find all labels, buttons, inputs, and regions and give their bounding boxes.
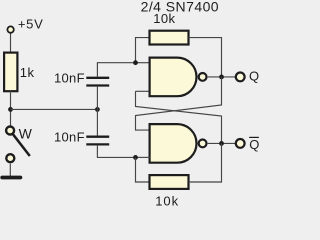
wire: U1a output to terminal Q <box>208 76 236 78</box>
wire: node X up and to R2 left <box>136 38 150 63</box>
nand gate U1a <box>150 58 197 97</box>
wire: cross-coupling top output to U1b input A <box>136 77 222 130</box>
svg-text:10nF: 10nF <box>54 130 85 145</box>
U1a output bubble <box>199 73 207 81</box>
overline of Qbar <box>249 136 259 138</box>
wire: C1 top lead to node X <box>97 63 135 77</box>
top output junction <box>219 75 224 80</box>
wire: switch to ground <box>9 164 11 176</box>
svg-text:10nF: 10nF <box>54 70 85 85</box>
bottom output junction <box>219 141 224 146</box>
svg-text:Q: Q <box>249 69 259 84</box>
switch lever <box>13 134 30 156</box>
svg-text:Q: Q <box>249 137 259 152</box>
wire: R2 right to top output node <box>189 38 222 77</box>
wire: U1a input B from cross-coupling <box>136 90 151 92</box>
terminal Q <box>236 73 245 82</box>
ground <box>2 176 20 180</box>
svg-text:1k: 1k <box>20 65 35 80</box>
wire: node Y to U1b input B <box>136 156 151 158</box>
switch W bottom terminal <box>6 154 14 162</box>
svg-text:10k: 10k <box>153 11 175 26</box>
capacitor junction node <box>95 107 100 112</box>
resistor R1 <box>4 53 17 92</box>
wire: +5V terminal to R1 <box>10 33 12 53</box>
svg-text:+5V: +5V <box>18 16 44 31</box>
wire: C1 bottom lead to node A <box>96 87 98 110</box>
resistor R2 <box>150 31 189 45</box>
wire: node A to capacitor junction <box>11 108 98 110</box>
node Y junction <box>133 155 138 160</box>
terminal +5V <box>7 26 13 32</box>
wire: U1b output to terminal Qbar <box>208 142 236 144</box>
nand gate U1b <box>150 124 197 163</box>
node A junction <box>8 107 13 112</box>
wire: R1 to switch (through node A) <box>10 91 12 126</box>
wire: node X to gate U1a input A <box>136 62 151 64</box>
svg-text:W: W <box>19 126 33 142</box>
switch W top terminal <box>6 127 14 135</box>
wire: node Y down to R3 left <box>136 157 150 182</box>
svg-text:10k: 10k <box>155 194 179 207</box>
wire: C2 top lead to node A <box>96 109 98 135</box>
wire: cross-coupling bottom output to U1a input B <box>136 91 222 143</box>
capacitor C2 plates <box>86 136 109 138</box>
node X junction <box>133 60 138 65</box>
terminal Qbar <box>236 139 245 148</box>
resistor R3 <box>150 175 189 189</box>
U1b output bubble <box>199 140 207 148</box>
wire: C2 bottom lead to node Y <box>97 146 135 158</box>
wire: R3 right to bottom output node <box>189 143 222 182</box>
capacitor C1 plates <box>86 77 109 79</box>
